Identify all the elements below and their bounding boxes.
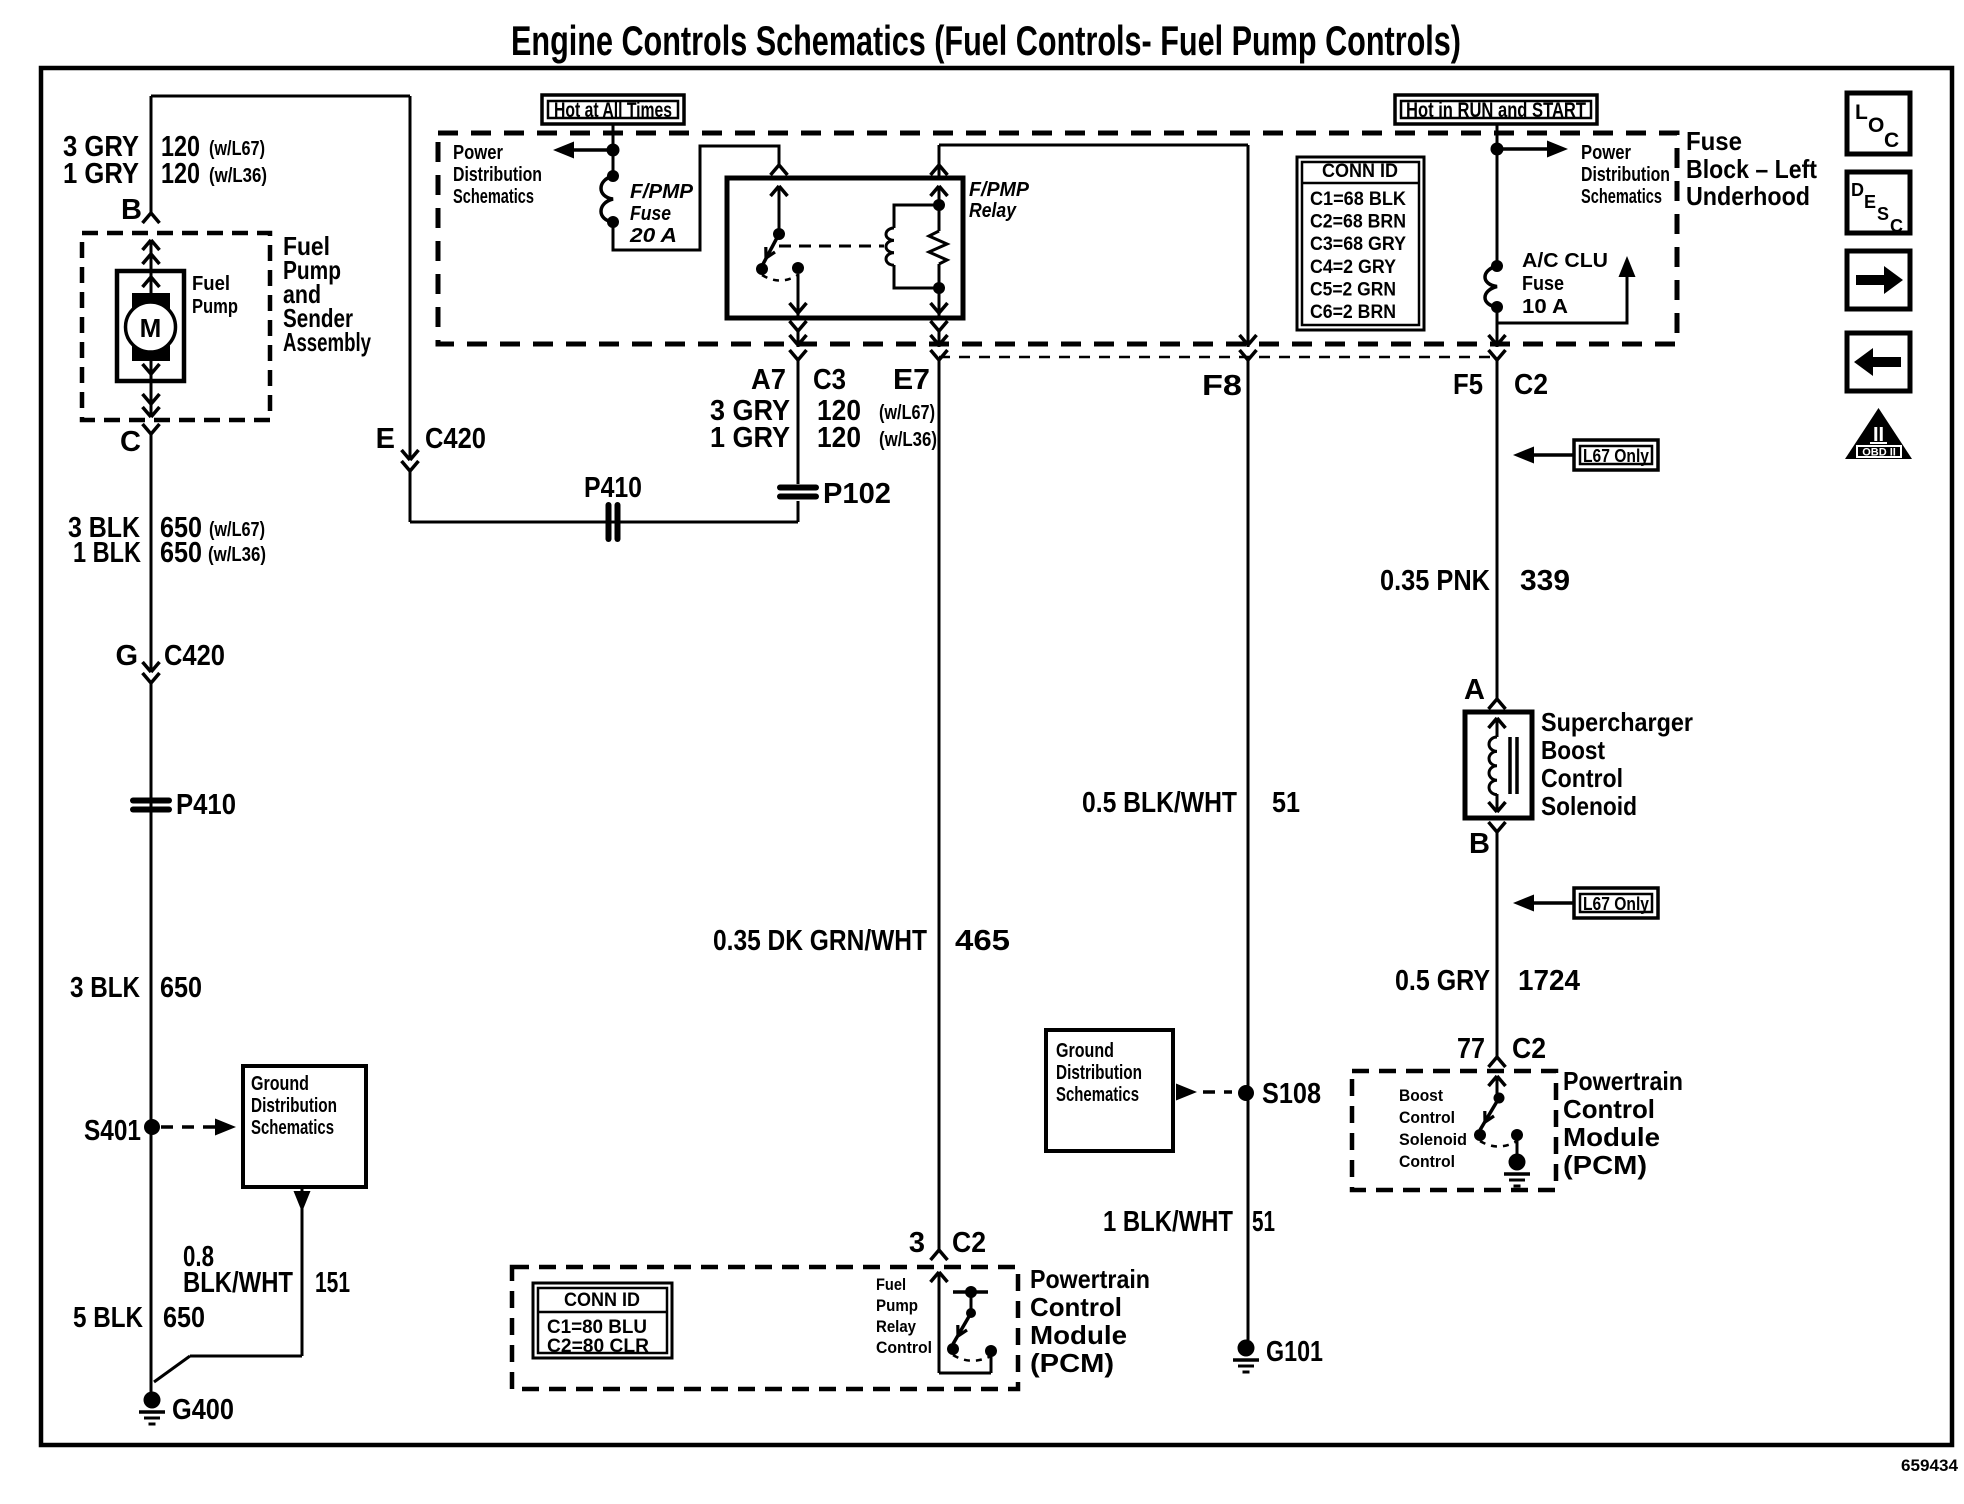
svg-text:Schematics: Schematics (1056, 1084, 1139, 1106)
svg-text:(w/L36): (w/L36) (879, 429, 937, 451)
svg-text:A: A (1464, 674, 1485, 706)
svg-text:(w/L36): (w/L36) (209, 165, 267, 187)
svg-text:M: M (140, 313, 162, 343)
svg-text:P410: P410 (584, 472, 642, 504)
svg-text:Pump: Pump (876, 1296, 918, 1315)
svg-text:659434: 659434 (1901, 1456, 1959, 1475)
svg-text:C2=68 BRN: C2=68 BRN (1310, 212, 1406, 233)
svg-text:(w/L36): (w/L36) (208, 544, 266, 566)
svg-text:(w/L67): (w/L67) (879, 402, 935, 424)
svg-text:650: 650 (163, 1302, 205, 1334)
svg-text:D: D (1851, 180, 1864, 200)
svg-text:77: 77 (1457, 1033, 1485, 1065)
svg-text:C: C (1890, 216, 1903, 236)
svg-text:P102: P102 (823, 478, 891, 510)
svg-text:3 BLK: 3 BLK (70, 972, 140, 1004)
svg-text:Fuel: Fuel (876, 1275, 906, 1294)
svg-text:P410: P410 (176, 789, 236, 821)
svg-text:C2: C2 (1514, 369, 1548, 401)
svg-text:F/PMP: F/PMP (630, 181, 694, 203)
svg-text:Supercharger: Supercharger (1541, 707, 1693, 737)
svg-text:S: S (1877, 204, 1889, 224)
svg-text:S108: S108 (1262, 1078, 1321, 1110)
svg-text:Power: Power (1581, 142, 1631, 164)
svg-text:B: B (121, 194, 142, 226)
svg-text:Schematics: Schematics (251, 1117, 334, 1139)
svg-text:(w/L67): (w/L67) (209, 519, 265, 541)
svg-text:20 A: 20 A (629, 225, 677, 247)
svg-text:C420: C420 (425, 423, 486, 455)
svg-text:F/PMP: F/PMP (969, 179, 1030, 201)
svg-text:OBD II: OBD II (1862, 447, 1896, 459)
svg-text:Solenoid: Solenoid (1399, 1130, 1467, 1149)
svg-text:1 GRY: 1 GRY (710, 422, 790, 454)
svg-text:1 BLK: 1 BLK (73, 537, 141, 569)
svg-text:L67 Only: L67 Only (1583, 446, 1649, 466)
svg-text:Hot at All Times: Hot at All Times (554, 99, 672, 122)
svg-text:Control: Control (1399, 1108, 1455, 1127)
svg-text:O: O (1868, 114, 1884, 137)
svg-text:C420: C420 (164, 640, 225, 672)
svg-text:Powertrain: Powertrain (1030, 1264, 1150, 1294)
svg-text:F5: F5 (1453, 369, 1483, 401)
svg-text:Distribution: Distribution (1581, 164, 1670, 186)
svg-text:Control: Control (1030, 1292, 1122, 1322)
svg-text:0.35 DK GRN/WHT: 0.35 DK GRN/WHT (713, 925, 927, 957)
svg-text:C2=80 CLR: C2=80 CLR (547, 1336, 649, 1357)
svg-text:(PCM): (PCM) (1030, 1348, 1114, 1378)
svg-text:BLK/WHT: BLK/WHT (183, 1267, 293, 1299)
svg-text:L67 Only: L67 Only (1583, 894, 1649, 914)
svg-text:Control: Control (876, 1338, 932, 1357)
svg-text:Control: Control (1541, 763, 1623, 793)
svg-text:C3=68 GRY: C3=68 GRY (1310, 234, 1406, 255)
svg-text:Ground: Ground (251, 1073, 309, 1095)
svg-text:Fuse: Fuse (630, 203, 671, 225)
svg-text:G400: G400 (172, 1394, 234, 1426)
svg-text:1724: 1724 (1518, 965, 1580, 997)
svg-text:C6=2 BRN: C6=2 BRN (1310, 302, 1396, 323)
svg-text:Schematics: Schematics (453, 186, 534, 208)
svg-text:G101: G101 (1266, 1336, 1323, 1368)
svg-text:A/C CLU: A/C CLU (1522, 250, 1608, 272)
svg-text:51: 51 (1252, 1206, 1275, 1238)
svg-text:Ground: Ground (1056, 1040, 1114, 1062)
svg-text:CONN ID: CONN ID (564, 1290, 640, 1311)
svg-text:Assembly: Assembly (283, 327, 371, 357)
svg-text:G: G (115, 640, 138, 672)
svg-text:Hot in RUN and START: Hot in RUN and START (1406, 99, 1586, 122)
svg-text:51: 51 (1272, 787, 1300, 819)
svg-text:C: C (1884, 129, 1899, 152)
svg-text:Solenoid: Solenoid (1541, 791, 1637, 821)
svg-text:Relay: Relay (969, 200, 1017, 222)
svg-text:L: L (1855, 101, 1868, 124)
svg-text:0.5 GRY: 0.5 GRY (1395, 965, 1490, 997)
svg-text:Boost: Boost (1399, 1086, 1443, 1105)
svg-text:E: E (376, 423, 395, 455)
svg-text:(w/L67): (w/L67) (209, 138, 265, 160)
svg-text:Underhood: Underhood (1686, 181, 1810, 211)
svg-text:C4=2 GRY: C4=2 GRY (1310, 257, 1396, 278)
svg-text:Fuse: Fuse (1522, 273, 1564, 295)
svg-text:Boost: Boost (1541, 735, 1605, 765)
svg-text:Distribution: Distribution (453, 164, 542, 186)
svg-text:Block – Left: Block – Left (1686, 154, 1817, 184)
svg-text:C1=68 BLK: C1=68 BLK (1310, 189, 1406, 210)
svg-text:C5=2 GRN: C5=2 GRN (1310, 279, 1396, 300)
svg-text:1 GRY: 1 GRY (63, 158, 139, 190)
svg-text:A7: A7 (751, 364, 786, 396)
svg-text:CONN ID: CONN ID (1322, 161, 1398, 182)
svg-text:3: 3 (909, 1227, 925, 1259)
svg-text:Control: Control (1563, 1094, 1655, 1124)
svg-text:339: 339 (1520, 565, 1570, 597)
svg-text:Powertrain: Powertrain (1563, 1066, 1683, 1096)
svg-text:B: B (1469, 828, 1490, 860)
svg-text:S401: S401 (84, 1115, 141, 1147)
svg-text:Distribution: Distribution (1056, 1062, 1142, 1084)
svg-text:650: 650 (160, 537, 202, 569)
svg-text:Pump: Pump (192, 296, 238, 318)
svg-text:E: E (1864, 192, 1876, 212)
svg-text:Relay: Relay (876, 1317, 916, 1336)
svg-text:0.35 PNK: 0.35 PNK (1380, 565, 1490, 597)
svg-text:Engine Controls Schematics (Fu: Engine Controls Schematics (Fuel Control… (511, 17, 1461, 64)
svg-text:Fuel: Fuel (192, 273, 230, 295)
svg-text:Distribution: Distribution (251, 1095, 337, 1117)
svg-text:C2: C2 (952, 1227, 986, 1259)
svg-text:120: 120 (161, 158, 200, 190)
svg-text:0.5 BLK/WHT: 0.5 BLK/WHT (1082, 787, 1237, 819)
svg-text:10 A: 10 A (1522, 296, 1568, 318)
svg-text:465: 465 (955, 925, 1010, 957)
svg-text:Fuse: Fuse (1686, 126, 1742, 156)
svg-text:F8: F8 (1202, 370, 1242, 402)
svg-text:Schematics: Schematics (1581, 186, 1662, 208)
svg-text:151: 151 (315, 1267, 350, 1299)
svg-text:5 BLK: 5 BLK (73, 1302, 143, 1334)
svg-text:E7: E7 (893, 364, 930, 396)
svg-text:C1=80 BLU: C1=80 BLU (547, 1317, 647, 1338)
svg-text:C: C (120, 426, 141, 458)
svg-text:Module: Module (1563, 1122, 1660, 1152)
svg-text:Module: Module (1030, 1320, 1127, 1350)
svg-text:1 BLK/WHT: 1 BLK/WHT (1103, 1206, 1233, 1238)
svg-text:650: 650 (160, 972, 202, 1004)
svg-text:C2: C2 (1512, 1033, 1546, 1065)
svg-text:Control: Control (1399, 1152, 1455, 1171)
svg-text:(PCM): (PCM) (1563, 1150, 1647, 1180)
svg-text:Power: Power (453, 142, 503, 164)
svg-text:120: 120 (817, 422, 861, 454)
svg-text:C3: C3 (813, 364, 846, 396)
